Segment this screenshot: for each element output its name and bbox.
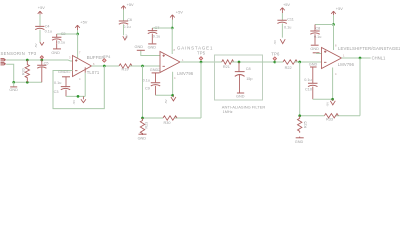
junction levelshifter V- [331,98,334,101]
svg-text:SENSORIN: SENSORIN [1,51,26,56]
junction feedback node [141,117,144,120]
svg-text:C5: C5 [44,61,49,65]
wire levelshifter V+ pin [334,25,338,51]
svg-text:LMV796: LMV796 [338,62,355,67]
junction TP6 [273,61,276,64]
label GAINSTAGE1 [177,45,213,50]
resistor R19 [119,64,132,72]
svg-text:0.1u: 0.1u [153,34,160,38]
junction R20 top [26,59,29,62]
supply +5V (C4 column) [38,5,46,15]
label ANTI-ALIASING FILTER [222,105,266,115]
label TL071 [87,70,100,75]
label TP6 [271,51,280,56]
supply -5V arrow (levelshifter) [325,99,335,106]
wire R22 to opamp [294,61,321,63]
junction gain V- [171,94,174,97]
supply +5V (levelshifter) [331,6,343,15]
svg-text:0.1u: 0.1u [143,78,150,82]
wire pin2 to gnd rail [6,64,14,82]
supply +5V (gain) [170,9,183,19]
capacitor C7 [148,26,160,43]
svg-text:+5V: +5V [80,19,87,24]
resistor R20 [21,60,29,82]
svg-text:TP3: TP3 [28,51,37,56]
svg-text:GND: GND [309,62,318,66]
svg-text:C7: C7 [155,26,160,30]
svg-text:0.1u: 0.1u [284,25,291,29]
ground GND under C8 [236,93,245,98]
capacitor C2 [52,32,66,44]
wire junction to C8b [315,24,334,26]
svg-text:GND: GND [148,45,157,49]
svg-text:15p: 15p [246,77,252,81]
svg-text:ANTI-ALIASING FILTER: ANTI-ALIASING FILTER [222,105,266,110]
op-amp U3B levelshifter LMV796 [322,48,346,77]
wire C9 to V- junction [156,94,173,96]
junction buffer V+ [76,33,79,36]
svg-text:R23: R23 [145,122,149,129]
ground GND above C10 (flipped) [309,62,318,83]
svg-text:GND: GND [135,45,144,49]
svg-text:C8: C8 [246,67,251,71]
test point TP3 diamond [40,56,43,59]
wire R21 to TP6 [232,61,275,63]
capacitor C4 [35,25,52,34]
junction bias tap [298,61,301,64]
svg-text:C8: C8 [315,27,320,31]
svg-text:GND: GND [138,136,147,140]
svg-text:R22: R22 [285,66,292,70]
svg-text:R33: R33 [326,118,333,122]
svg-text:R20: R20 [21,68,25,75]
svg-text:0.1u: 0.1u [304,78,311,82]
wire buffer V+ pin 7 [78,34,81,58]
svg-text:GND2: GND2 [150,68,161,72]
resistor R25 [298,116,308,133]
capacitor C3 [54,81,71,96]
capacitor C10 [304,78,317,99]
capacitor C11 [277,18,293,30]
supply -5V arrow (gain) [164,95,176,104]
svg-text:-5V: -5V [164,99,168,104]
svg-text:BUFFER: BUFFER [87,55,105,60]
svg-text:0.1u: 0.1u [45,29,52,33]
wire junction to C2 [57,33,78,35]
svg-text:1MHz: 1MHz [223,110,233,114]
ground GND under C2 [51,44,61,55]
ground GND2 (flipped) above C9 [150,68,161,82]
svg-text:TP6: TP6 [271,51,280,56]
svg-text:GND: GND [310,47,319,51]
resistor R21 [222,60,234,69]
wire C3 to V- junction [66,95,85,97]
resistor R23 [140,118,148,135]
svg-text:GND: GND [9,88,18,92]
supply -5V arrow (C4) [34,42,44,48]
wire C6 to -5V [123,24,125,35]
op-amp U2 buffer TL071 [69,56,95,82]
capacitor C8 (decoupling) [310,25,321,45]
junction rail-R20 [26,81,29,84]
svg-text:C9: C9 [145,86,150,90]
ground GND under R25 [295,137,304,145]
connector X1 pin 1 [1,59,6,61]
wire C11 to -5V [281,23,283,37]
svg-text:-5V: -5V [325,102,329,107]
junction bias node [298,114,301,117]
svg-text:-5V: -5V [273,40,277,45]
svg-text:R19: R19 [122,67,129,71]
junction buffer V- [77,95,80,98]
wire buffer feedback loop [53,66,104,109]
wire +5V down [333,15,335,25]
svg-text:0.1u: 0.1u [314,35,321,39]
svg-text:GND: GND [295,140,304,144]
net label CHNL1 [372,55,386,60]
svg-text:0.1u: 0.1u [58,40,65,44]
svg-text:GND3: GND3 [58,70,69,74]
svg-text:C10: C10 [305,87,312,91]
svg-text:+5V: +5V [38,5,45,10]
junction levelshifter V+ [332,23,335,26]
supply -5V arrow (C6) [123,34,129,40]
capacitor C6 [119,18,132,29]
junction gain inverting node [141,65,144,68]
supply +5V (C6 column) [121,2,134,10]
wire +5V to C6 [123,10,125,21]
wire TP5 to feedback row [200,62,202,118]
svg-text:GND: GND [236,94,245,98]
svg-text:-5V: -5V [125,34,129,39]
ground GND under C8b [310,45,319,51]
wire gain V+ pin [171,28,173,54]
wire +5V to C4 [39,15,41,27]
ground GND3 (flipped) above C3 [58,70,70,86]
label LMV796 gain [177,71,194,76]
junction gain V+ [171,27,174,30]
svg-text:-5V: -5V [34,43,38,48]
ground GND under R23 [138,133,147,140]
resistor R33 [324,114,338,122]
svg-text:TP5: TP5 [197,51,206,56]
svg-text:0.1u: 0.1u [123,25,130,29]
svg-text:C3: C3 [54,90,59,94]
resistor R30 [163,116,177,125]
svg-text:TL071: TL071 [87,70,100,75]
ground GND at gain +in [135,45,161,56]
op-amp U3A gain stage LMV796 [160,48,184,80]
wire buffer output [92,65,120,67]
wire signal in [6,60,72,61]
wire feedback vertical [142,66,144,118]
junction output feedback [359,57,362,60]
svg-text:R30: R30 [164,121,171,125]
supply -5V arrow (C11) [273,39,285,44]
wire +5V to junction (gain) [171,20,173,29]
junction TP3 / C5 top [40,59,43,62]
wire R19 to gain input [130,65,161,67]
test point TP5 diamond [199,57,202,60]
capacitor C8 (filter) [235,62,253,93]
test point TP6 diamond [273,57,276,60]
svg-text:+5V: +5V [336,6,343,11]
wire buffer V- pin 4 [84,67,86,96]
wire bias row [300,115,360,117]
anti-aliasing filter box [215,55,263,100]
svg-text:C4: C4 [45,25,50,29]
wire +5V to junction [77,30,79,34]
supply -5V arrow (buffer) [72,96,86,104]
supply +5V (buffer) [75,19,88,30]
svg-text:+5V: +5V [176,9,183,14]
svg-text:C2: C2 [61,32,66,36]
svg-text:LMV796: LMV796 [177,71,194,76]
junction C8 tap [238,61,241,64]
wire junction to C7 [152,27,172,29]
test point TP4 diamond [103,59,107,63]
supply +5V (C11 column) [280,2,290,13]
net label TP3 [28,51,37,56]
svg-text:C6: C6 [127,18,132,22]
junction TP5 [200,61,203,64]
wire +5V to C11 [281,13,283,20]
resistor R22 [283,60,297,70]
label LMV796 levelshifter [338,62,355,67]
wire gain output [180,61,222,63]
wire C10 to V- junction [313,98,333,100]
svg-text:0.1u: 0.1u [54,81,61,85]
junction TP4 [103,65,106,68]
label LEVELSHIFTER/GAINSTAGE2 [338,46,400,51]
ground GND left [9,82,18,92]
svg-text:+5V: +5V [283,2,290,7]
wire feedback row [143,117,202,119]
label BUFFER TP4 [87,54,111,60]
connector X1 pin 2 [1,63,6,65]
net label SENSORIN [1,51,26,56]
label TP5 [197,51,206,56]
capacitor C9 [143,78,161,95]
wire levelshifter V- pin [332,68,334,100]
svg-text:GND: GND [51,51,60,55]
svg-text:R25: R25 [303,121,307,128]
svg-text:LEVELSHIFTER/GAINSTAGE2: LEVELSHIFTER/GAINSTAGE2 [338,46,400,51]
svg-text:+5V: +5V [127,2,134,7]
wire gnd rail [14,81,42,83]
svg-text:GAINSTAGE1: GAINSTAGE1 [177,45,213,50]
svg-text:CHNL1: CHNL1 [372,55,386,60]
wire gain V- pin [172,72,174,96]
wire C4 to -5V [39,30,41,43]
ground GND at levelshifter +in (flipped) [313,52,322,55]
svg-text:R21: R21 [223,65,230,69]
wire levelshifter output [342,57,371,59]
wire output feedback vertical [359,58,361,116]
svg-text:-5V: -5V [72,100,76,105]
wire TP6 to R22 [275,61,283,63]
ground GND under C7 [148,44,157,50]
wire bias vertical [299,62,301,116]
svg-text:C11: C11 [287,18,294,22]
junction rail-gnd [12,81,15,84]
